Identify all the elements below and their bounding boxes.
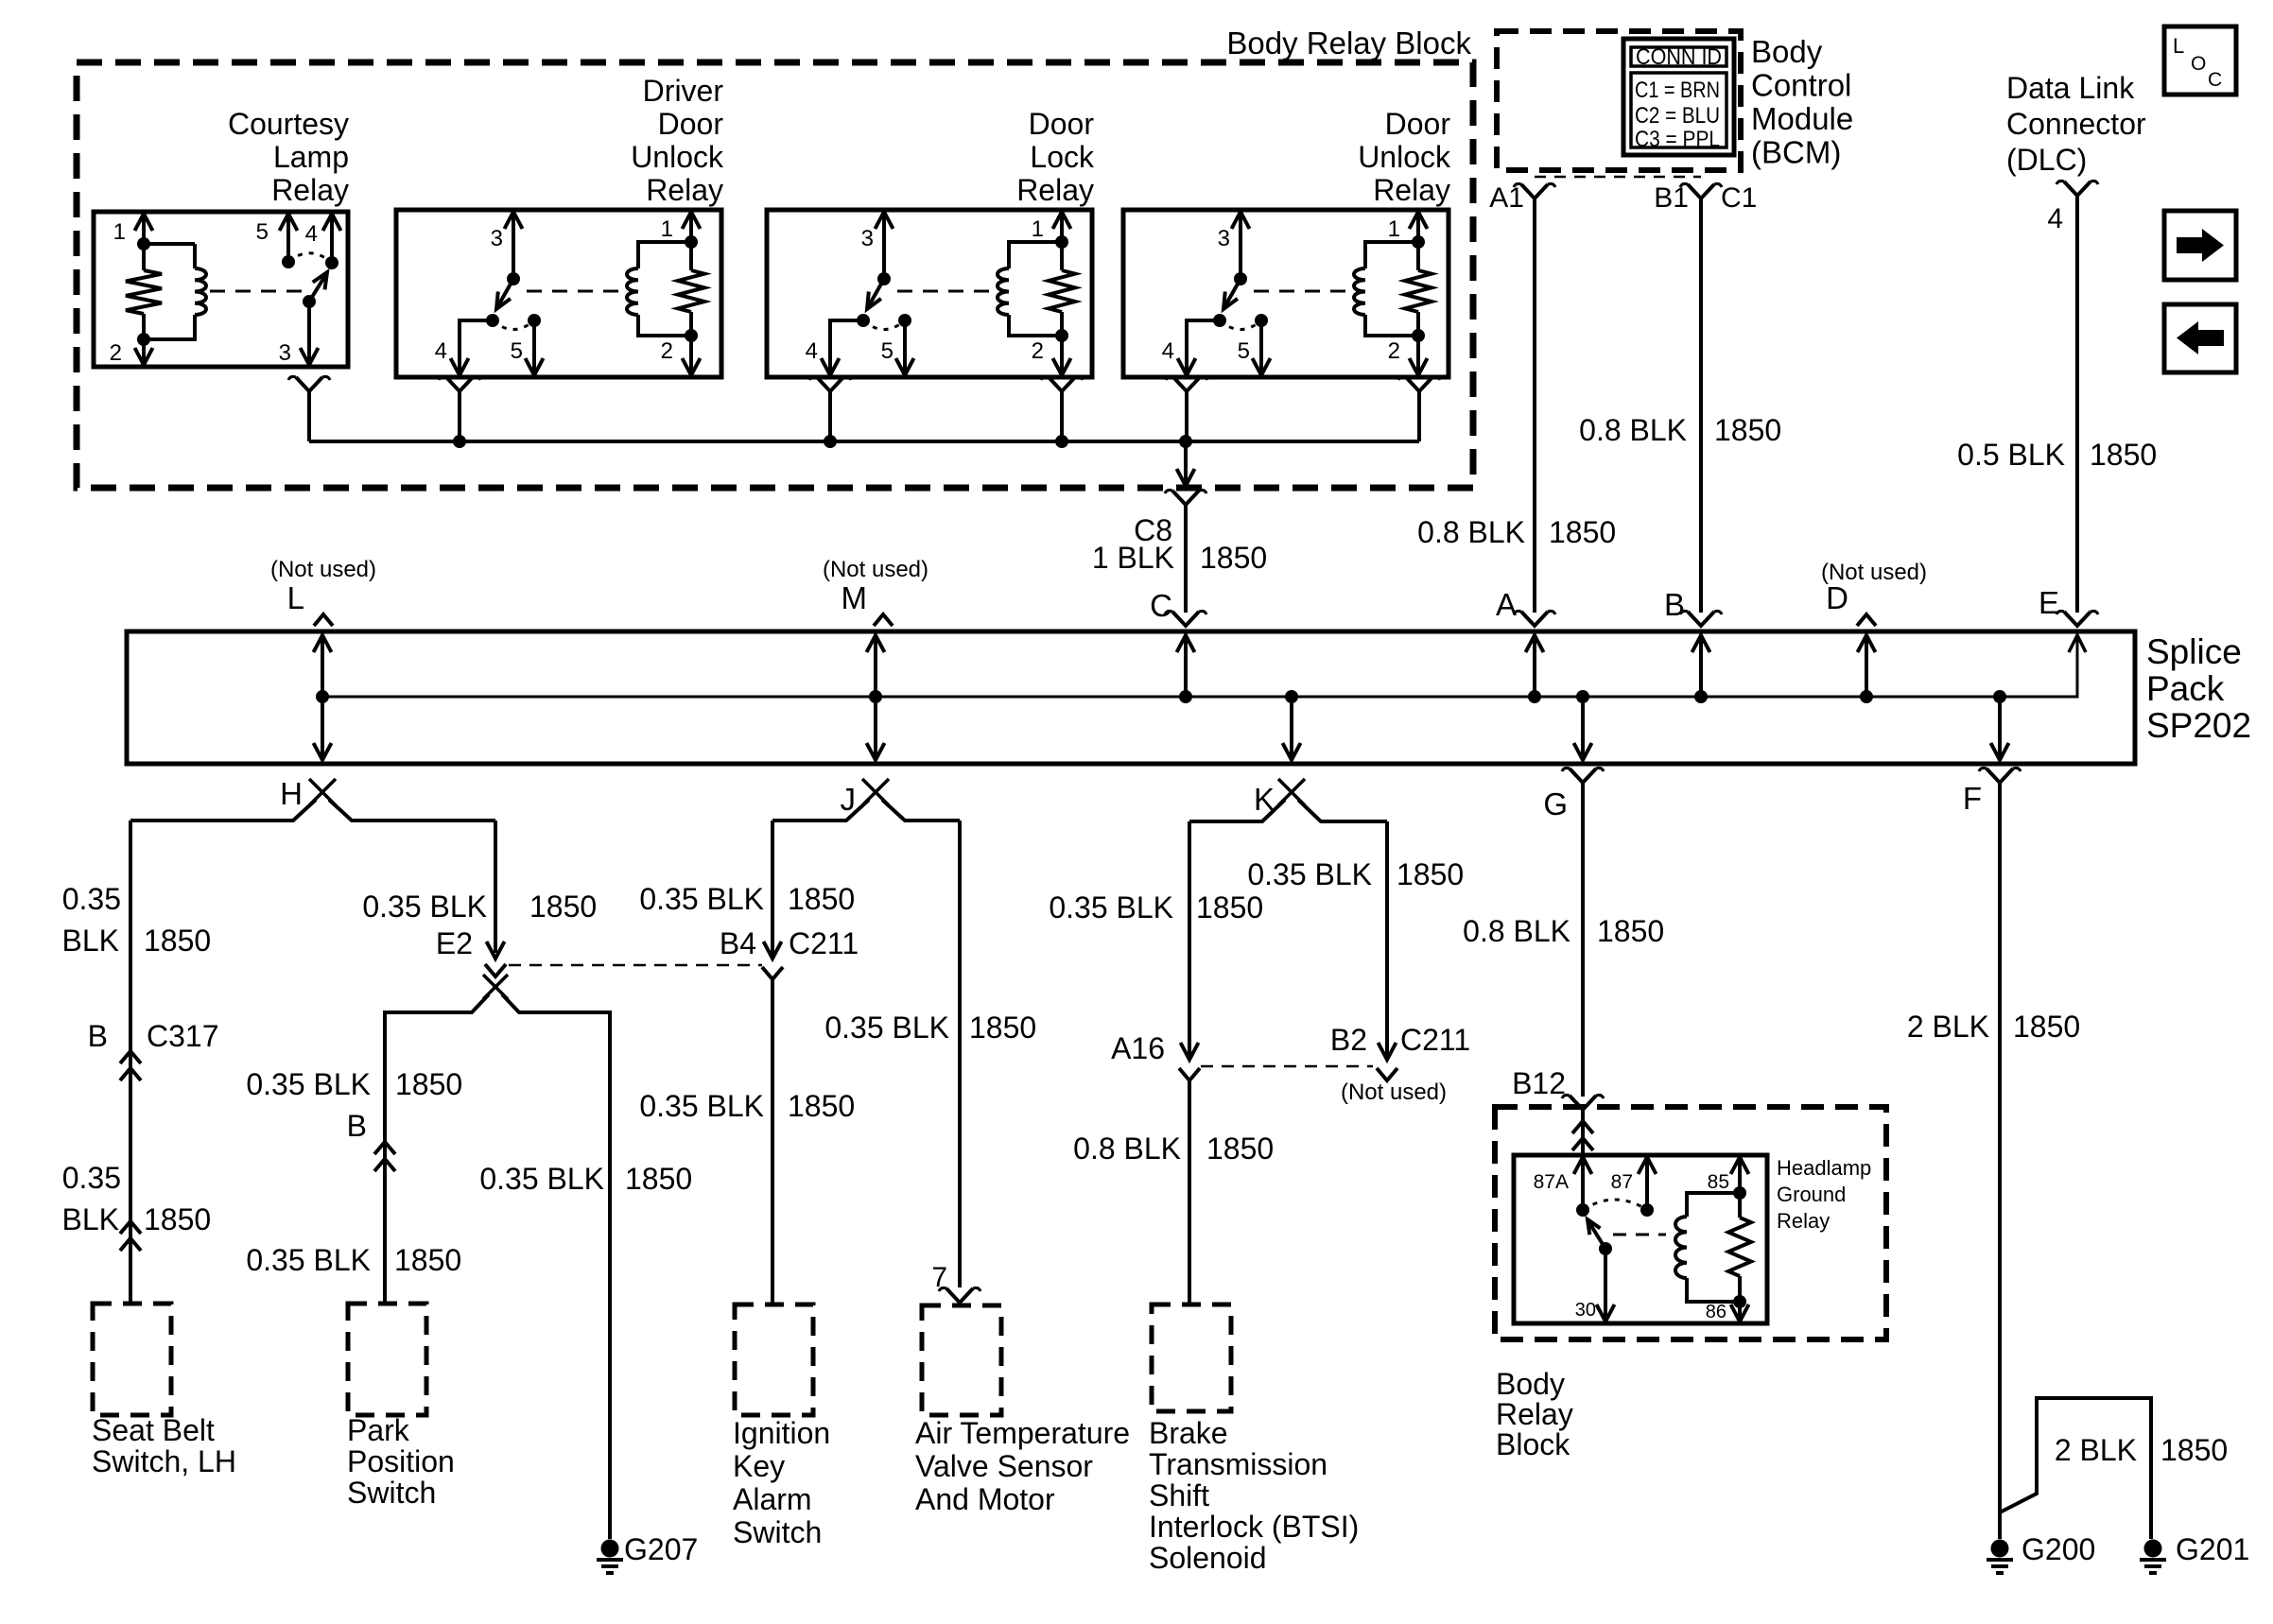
svg-text:CONN ID: CONN ID bbox=[1636, 44, 1722, 70]
connector B4 C211: down arrow and chevron bbox=[764, 942, 782, 959]
legend box left arrow bbox=[2164, 304, 2236, 372]
svg-text:BLK: BLK bbox=[62, 924, 119, 958]
relay K4 Door Unlock Relay node dot pin2 bbox=[1412, 329, 1425, 342]
ground G200 bbox=[1991, 1540, 2009, 1558]
svg-text:BLK: BLK bbox=[62, 1202, 119, 1236]
relay K1 pin 4 wire with up arrow bbox=[330, 216, 334, 263]
connector double chevron B12 inside block bbox=[1572, 1121, 1593, 1133]
connector E2: down arrow and chevron bbox=[487, 942, 505, 959]
connector Y below splice G bbox=[1570, 769, 1596, 783]
connector Y below relay K4 pin 4 bbox=[1173, 377, 1200, 391]
svg-text:1850: 1850 bbox=[1206, 1132, 1274, 1166]
junction dot splice B bbox=[1694, 690, 1708, 703]
relay K3 Door Lock Relay dashed actuation link bbox=[897, 290, 1001, 293]
svg-text:L: L bbox=[287, 580, 304, 615]
headlamp relay dashed actuation link bbox=[1613, 1234, 1666, 1236]
svg-text:E2: E2 bbox=[436, 926, 473, 960]
junction dot splice L/H bbox=[316, 690, 329, 703]
svg-text:2: 2 bbox=[1388, 338, 1400, 364]
svg-text:D: D bbox=[1826, 580, 1848, 615]
wire BTSI below A16 bbox=[1188, 1080, 1191, 1304]
connector Y below splice F bbox=[1987, 769, 2013, 783]
relay K4 Door Unlock Relay resistor bbox=[1416, 242, 1420, 270]
CONN ID header box bbox=[1631, 47, 1726, 66]
headlamp relay node dot 85 bbox=[1733, 1186, 1746, 1200]
wire K right branch down to B2 bbox=[1385, 821, 1389, 1056]
wire C8 to splice pack C bbox=[1184, 505, 1188, 613]
svg-text:1850: 1850 bbox=[144, 924, 211, 958]
CONN ID body box bbox=[1631, 73, 1726, 147]
relay K1 pin 3 wire with down arrow bbox=[307, 302, 311, 363]
svg-text:H: H bbox=[280, 776, 303, 811]
ground G207 bbox=[601, 1540, 619, 1558]
relay K2 Driver Door Unlock Relay pin 2 wire with down arrow bbox=[689, 336, 693, 373]
relay K3 Door Lock Relay pin 4 contact dot bbox=[857, 314, 870, 327]
svg-text:85: 85 bbox=[1708, 1171, 1729, 1193]
svg-text:5: 5 bbox=[1238, 338, 1250, 364]
relay K1 dotted throw arc bbox=[288, 253, 332, 263]
relay K1 node dot pin2 bbox=[137, 333, 150, 346]
connector Y above splice pack E bbox=[2064, 612, 2091, 626]
Air Temperature Valve Sensor dashed box bbox=[922, 1305, 1001, 1415]
svg-text:C: C bbox=[2208, 69, 2222, 91]
wire BCM B1 to splice pack B bbox=[1699, 199, 1703, 613]
svg-text:B: B bbox=[88, 1019, 108, 1053]
svg-text:A1: A1 bbox=[1489, 182, 1524, 214]
Ignition Key Alarm Switch dashed box bbox=[735, 1304, 813, 1415]
relay K1 pin 1 wire with up arrow bbox=[142, 216, 146, 244]
svg-text:E: E bbox=[2039, 585, 2059, 620]
svg-text:0.35: 0.35 bbox=[62, 1161, 121, 1195]
headlamp relay 87 contact dot bbox=[1640, 1203, 1654, 1217]
connector Y below relay K3 pin 4 bbox=[817, 377, 843, 391]
svg-text:1: 1 bbox=[1032, 216, 1044, 242]
svg-text:2: 2 bbox=[110, 340, 122, 366]
relay K3 Door Lock Relay coil branch wire bbox=[1009, 242, 1062, 336]
svg-text:4: 4 bbox=[435, 338, 447, 364]
svg-text:0.35 BLK: 0.35 BLK bbox=[362, 890, 487, 924]
svg-text:1850: 1850 bbox=[1714, 413, 1781, 447]
relay K2 Driver Door Unlock Relay pin 1 wire with up arrow bbox=[689, 214, 693, 242]
connector Y below relay K1 pin 3 bbox=[296, 377, 322, 391]
relay K2 Driver Door Unlock Relay switch pivot dot bbox=[507, 272, 520, 285]
wire BCM A1 to splice pack A bbox=[1533, 199, 1536, 613]
svg-text:1850: 1850 bbox=[1549, 515, 1616, 549]
svg-text:Body Relay Block: Body Relay Block bbox=[1226, 26, 1471, 60]
wire park position branch down bbox=[383, 1012, 387, 1304]
svg-text:87A: 87A bbox=[1534, 1171, 1569, 1193]
CONN ID table outer box bbox=[1623, 39, 1734, 155]
headlamp relay pin 30 wire with down arrow bbox=[1604, 1249, 1607, 1320]
svg-text:C211: C211 bbox=[1400, 1023, 1470, 1057]
svg-text:0.35 BLK: 0.35 BLK bbox=[246, 1243, 371, 1277]
wire air temp branch down bbox=[958, 821, 962, 1287]
svg-text:1: 1 bbox=[113, 219, 126, 245]
Brake Transmission Shift Interlock dashed box bbox=[1152, 1304, 1231, 1411]
svg-text:C3 = PPL: C3 = PPL bbox=[1635, 127, 1720, 152]
relay K3 Door Lock Relay box bbox=[767, 210, 1092, 377]
svg-text:G: G bbox=[1543, 786, 1568, 821]
wire relay K4 pin4 to bus bbox=[1185, 391, 1189, 441]
relay K1 coil bbox=[195, 268, 206, 315]
relay K2 Driver Door Unlock Relay coil bbox=[627, 268, 638, 315]
relay K4 Door Unlock Relay coil branch wire bbox=[1365, 242, 1418, 336]
headlamp relay pin 87A wire with up arrow bbox=[1581, 1159, 1585, 1210]
connector C317 double chevron bbox=[120, 1051, 141, 1063]
svg-text:1 BLK: 1 BLK bbox=[1092, 541, 1174, 575]
svg-text:1850: 1850 bbox=[2160, 1433, 2228, 1467]
splice terminal A arrow bbox=[1533, 637, 1536, 697]
svg-text:C1 = BRN: C1 = BRN bbox=[1635, 78, 1720, 103]
wire K split to branches bbox=[1189, 800, 1387, 821]
connector Y above splice pack A bbox=[1521, 612, 1548, 626]
wire relay K2 pin4 to bus bbox=[458, 391, 461, 441]
svg-text:(Not used): (Not used) bbox=[1341, 1080, 1447, 1105]
svg-text:C2 = BLU: C2 = BLU bbox=[1635, 103, 1720, 129]
wire G207 branch down bbox=[608, 1014, 612, 1539]
relay K3 Door Lock Relay pin 2 wire with down arrow bbox=[1060, 336, 1064, 373]
headlamp relay node dot 86 bbox=[1733, 1295, 1746, 1308]
wire horizontal ground bus in relay block bbox=[309, 440, 1419, 443]
svg-text:0.35: 0.35 bbox=[62, 882, 121, 916]
relay K1 Courtesy Lamp Relay box bbox=[94, 212, 348, 367]
wire relay K3 pin2 to bus bbox=[1060, 391, 1064, 441]
svg-text:4: 4 bbox=[1162, 338, 1174, 364]
svg-text:3: 3 bbox=[1218, 226, 1230, 251]
connector Y below BCM pin A1 bbox=[1521, 184, 1548, 199]
svg-text:1850: 1850 bbox=[394, 1243, 461, 1277]
relay K1 pin 5 wire with up arrow bbox=[286, 216, 290, 262]
splice terminal K arrow bbox=[1290, 697, 1293, 758]
svg-text:0.35 BLK: 0.35 BLK bbox=[1049, 890, 1173, 924]
svg-text:5: 5 bbox=[256, 219, 269, 245]
svg-text:B12: B12 bbox=[1512, 1066, 1566, 1100]
svg-text:1850: 1850 bbox=[625, 1162, 692, 1196]
svg-text:O: O bbox=[2191, 53, 2206, 75]
svg-text:2 BLK: 2 BLK bbox=[2055, 1433, 2137, 1467]
relay K3 Door Lock Relay node dot pin1 bbox=[1055, 235, 1068, 249]
relay K3 Door Lock Relay pin 4 elbow wire with down arrow bbox=[830, 320, 863, 373]
svg-text:0.8 BLK: 0.8 BLK bbox=[1463, 914, 1570, 948]
svg-text:0.35 BLK: 0.35 BLK bbox=[824, 1011, 949, 1045]
wire J split to branches bbox=[772, 800, 960, 821]
relay K3 Door Lock Relay pin 3 wire with up arrow bbox=[882, 214, 886, 279]
relay K4 Door Unlock Relay pin 5 contact dot bbox=[1255, 314, 1268, 327]
Body Relay Block (lower) dashed enclosure bbox=[1495, 1107, 1886, 1339]
svg-text:4: 4 bbox=[806, 338, 818, 364]
relay K4 Door Unlock Relay dotted throw arc bbox=[1220, 320, 1261, 330]
junction dot splice D bbox=[1860, 690, 1873, 703]
junction dot bus/K2p4 bbox=[453, 435, 466, 448]
relay K4 Door Unlock Relay pin 1 wire with up arrow bbox=[1416, 214, 1420, 242]
svg-text:0.35 BLK: 0.35 BLK bbox=[1247, 857, 1372, 891]
wire H right branch down to E2 bbox=[494, 821, 497, 953]
relay K4 Door Unlock Relay coil bbox=[1354, 268, 1365, 315]
relay K1 dashed actuation link bbox=[210, 290, 304, 293]
svg-text:C: C bbox=[1150, 588, 1172, 623]
svg-text:0.35 BLK: 0.35 BLK bbox=[639, 882, 764, 916]
svg-text:B4: B4 bbox=[720, 926, 756, 960]
svg-text:B2: B2 bbox=[1330, 1023, 1367, 1057]
svg-text:0.8 BLK: 0.8 BLK bbox=[1417, 515, 1525, 549]
relay K2 Driver Door Unlock Relay node dot pin2 bbox=[685, 329, 698, 342]
svg-text:0.5 BLK: 0.5 BLK bbox=[1957, 438, 2065, 472]
svg-text:A16: A16 bbox=[1111, 1031, 1165, 1065]
relay K3 Door Lock Relay node dot pin2 bbox=[1055, 329, 1068, 342]
headlamp relay pin 85 wire with up arrow bbox=[1738, 1159, 1742, 1193]
relay K4 Door Unlock Relay switch arm (to pin 4 contact) bbox=[1224, 279, 1241, 307]
relay K3 Door Lock Relay pin 5 wire with down arrow bbox=[903, 320, 907, 373]
svg-text:1850: 1850 bbox=[1200, 541, 1267, 575]
relay K2 Driver Door Unlock Relay node dot pin1 bbox=[685, 235, 698, 249]
relay K2 Driver Door Unlock Relay dotted throw arc bbox=[493, 320, 534, 330]
svg-text:86: 86 bbox=[1706, 1302, 1726, 1322]
svg-text:2: 2 bbox=[1032, 338, 1044, 364]
dashed line A16 to B2 bbox=[1201, 1065, 1373, 1068]
svg-text:G200: G200 bbox=[2021, 1532, 2095, 1566]
relay K2 Driver Door Unlock Relay switch arm (to pin 4 contact) bbox=[497, 279, 513, 307]
wire relay K3 pin4 to bus bbox=[828, 391, 832, 441]
relay K2 Driver Door Unlock Relay box bbox=[396, 210, 721, 377]
headlamp relay resistor bbox=[1738, 1193, 1742, 1218]
splice terminal L/H vertical with arrows bbox=[321, 637, 324, 758]
relay K1 node dot pin1 bbox=[137, 237, 150, 251]
Splice Pack SP202 box bbox=[127, 631, 2135, 764]
svg-text:3: 3 bbox=[279, 340, 291, 366]
relay K2 Driver Door Unlock Relay coil branch wire bbox=[638, 242, 691, 336]
relay K4 Door Unlock Relay node dot pin1 bbox=[1412, 235, 1425, 249]
headlamp relay coil bbox=[1675, 1217, 1687, 1278]
svg-text:B1: B1 bbox=[1654, 182, 1689, 214]
svg-text:1850: 1850 bbox=[144, 1202, 211, 1236]
Seat Belt Switch dashed box bbox=[93, 1304, 171, 1415]
wire ignition below B4 bbox=[771, 979, 774, 1304]
connector X below splice K bbox=[1278, 779, 1305, 805]
svg-text:2: 2 bbox=[661, 338, 673, 364]
relay K4 Door Unlock Relay pin 3 wire with up arrow bbox=[1239, 214, 1242, 279]
splice terminal C arrow bbox=[1184, 637, 1188, 697]
splice terminal M/J vertical with arrows bbox=[874, 637, 877, 758]
ground G201 bbox=[2144, 1540, 2162, 1558]
relay K4 Door Unlock Relay switch pivot dot bbox=[1234, 272, 1247, 285]
headlamp relay 87A contact dot bbox=[1576, 1203, 1589, 1217]
svg-text:BodyRelayBlock: BodyRelayBlock bbox=[1496, 1367, 1573, 1461]
junction dot splice G bbox=[1576, 690, 1589, 703]
relay K2 Driver Door Unlock Relay pin 4 contact dot bbox=[486, 314, 499, 327]
headlamp relay switch arm to 87A bbox=[1588, 1221, 1605, 1249]
svg-text:4: 4 bbox=[2047, 203, 2063, 234]
splice pack internal bus wire bbox=[322, 637, 2077, 697]
svg-text:M: M bbox=[842, 580, 868, 615]
svg-text:F: F bbox=[1963, 781, 1982, 816]
wire E2 split to branches bbox=[385, 994, 610, 1014]
connector Y above splice pack B bbox=[1688, 612, 1714, 626]
connector Y below BCM pin B1 bbox=[1688, 184, 1714, 199]
Park Position Switch dashed box bbox=[348, 1304, 426, 1415]
relay K3 Door Lock Relay switch arm (to pin 4 contact) bbox=[868, 279, 884, 307]
relay K2 Driver Door Unlock Relay resistor bbox=[689, 242, 693, 270]
relay K3 Door Lock Relay coil bbox=[998, 268, 1009, 315]
relay K2 Driver Door Unlock Relay dashed actuation link bbox=[527, 290, 631, 293]
svg-text:L: L bbox=[2173, 34, 2184, 58]
svg-text:B: B bbox=[1664, 587, 1685, 622]
relay K3 Door Lock Relay pin 5 contact dot bbox=[898, 314, 911, 327]
svg-text:C211: C211 bbox=[789, 926, 859, 960]
connector Y below DLC pin 4 bbox=[2064, 181, 2091, 196]
relay K3 Door Lock Relay resistor bbox=[1060, 242, 1064, 270]
svg-text:1850: 1850 bbox=[969, 1011, 1036, 1045]
relay K4 Door Unlock Relay pin 2 wire with down arrow bbox=[1416, 336, 1420, 373]
junction dot splice F bbox=[1993, 690, 2006, 703]
splice terminal D arrow bbox=[1865, 637, 1868, 697]
junction dot splice C bbox=[1179, 690, 1192, 703]
svg-text:1850: 1850 bbox=[1597, 914, 1664, 948]
headlamp relay pin 87 wire with up arrow bbox=[1645, 1159, 1649, 1210]
relay K1 switch arm (to pin 4) bbox=[309, 274, 326, 302]
svg-text:1850: 1850 bbox=[529, 890, 597, 924]
wire relay K1 pin3 to bus bbox=[307, 391, 311, 441]
relay K1 pin 5 contact dot bbox=[282, 255, 295, 268]
svg-text:C1: C1 bbox=[1721, 182, 1757, 214]
svg-text:1850: 1850 bbox=[395, 1067, 462, 1101]
connector X below splice H bbox=[309, 779, 336, 805]
Body Control Module enclosure (dashed) bbox=[1497, 31, 1741, 170]
svg-text:1850: 1850 bbox=[788, 1089, 855, 1123]
headlamp relay dotted throw arc bbox=[1583, 1200, 1647, 1210]
junction dot bus/K3p4 bbox=[824, 435, 837, 448]
wire H split to left/right branches bbox=[130, 800, 495, 821]
relay K4 Door Unlock Relay pin 4 elbow wire with down arrow bbox=[1187, 320, 1220, 373]
svg-text:A: A bbox=[1496, 587, 1517, 622]
wire DLC pin4 to splice pack E bbox=[2075, 196, 2079, 613]
svg-text:(Not used): (Not used) bbox=[823, 557, 928, 582]
headlamp relay pin 86 wire with down arrow bbox=[1738, 1302, 1742, 1320]
Body Relay Block enclosure (dashed) bbox=[77, 62, 1473, 488]
svg-text:1: 1 bbox=[661, 216, 673, 242]
relay K1 switch common dot bbox=[303, 295, 316, 308]
relay K2 Driver Door Unlock Relay pin 5 contact dot bbox=[528, 314, 541, 327]
wire BTSI branch down to A16 bbox=[1188, 821, 1191, 1056]
svg-text:4: 4 bbox=[305, 221, 318, 247]
connector Y C8 below relay block bbox=[1172, 491, 1199, 505]
connector X below E2 bbox=[483, 975, 508, 999]
svg-text:0.8 BLK: 0.8 BLK bbox=[1073, 1132, 1181, 1166]
svg-text:0.35 BLK: 0.35 BLK bbox=[246, 1067, 371, 1101]
svg-text:5: 5 bbox=[881, 338, 894, 364]
splice terminal F arrow bbox=[1998, 697, 2002, 758]
relay K4 Door Unlock Relay box bbox=[1123, 210, 1449, 377]
connector X below splice J bbox=[862, 779, 889, 805]
connector Y above air temp box bbox=[946, 1288, 973, 1303]
wire branch to G201 bbox=[2000, 1398, 2151, 1539]
connector A16: down arrow and chevron bbox=[1181, 1043, 1199, 1060]
relay K3 Door Lock Relay switch pivot dot bbox=[877, 272, 891, 285]
relay K3 Door Lock Relay pin 1 wire with up arrow bbox=[1060, 214, 1064, 242]
relay K1 resistor (coil suppression) bbox=[142, 244, 146, 270]
svg-text:30: 30 bbox=[1575, 1300, 1596, 1321]
wire B12 Y to relay bbox=[1581, 1110, 1585, 1155]
Headlamp Ground Relay box bbox=[1514, 1155, 1767, 1323]
wire H left branch down (seat belt) bbox=[129, 821, 132, 1304]
legend box right arrow bbox=[2164, 211, 2236, 280]
wire splice G down to B12 bbox=[1581, 783, 1585, 1097]
svg-text:3: 3 bbox=[491, 226, 503, 251]
junction dot bus/K3p2 bbox=[1055, 435, 1068, 448]
headlamp relay coil branch wire bbox=[1687, 1193, 1740, 1302]
wire bus down to C8 with arrow bbox=[1184, 441, 1188, 484]
svg-text:0.35 BLK: 0.35 BLK bbox=[479, 1162, 604, 1196]
relay K1 coil branch wire bbox=[144, 244, 195, 339]
junction dot bus/K4p4 bbox=[1179, 435, 1192, 448]
relay K1 pin 4 contact dot bbox=[325, 256, 338, 269]
splice terminal G arrow bbox=[1581, 697, 1585, 758]
svg-text:2 BLK: 2 BLK bbox=[1907, 1010, 1989, 1044]
connector Y below relay K2 pin 4 bbox=[446, 377, 473, 391]
relay K1 pin 2 wire with down arrow bbox=[142, 339, 146, 363]
svg-text:1850: 1850 bbox=[2090, 438, 2157, 472]
relay K4 Door Unlock Relay pin 5 wire with down arrow bbox=[1259, 320, 1263, 373]
BCM connector face dashed line bbox=[1535, 176, 1701, 179]
junction dot splice M/J bbox=[869, 690, 882, 703]
connector double chevron (park) bbox=[374, 1142, 395, 1154]
connector Y above body relay block B12 bbox=[1570, 1096, 1596, 1110]
svg-text:0.35 BLK: 0.35 BLK bbox=[639, 1089, 764, 1123]
svg-text:1: 1 bbox=[1388, 216, 1400, 242]
wire splice F down to G200 bbox=[1998, 783, 2002, 1539]
relay K4 Door Unlock Relay dashed actuation link bbox=[1254, 290, 1358, 293]
splice terminal B arrow bbox=[1699, 637, 1703, 697]
svg-text:5: 5 bbox=[511, 338, 523, 364]
svg-text:1850: 1850 bbox=[788, 882, 855, 916]
connector Y below relay K4 pin 2 bbox=[1406, 377, 1432, 391]
svg-text:B: B bbox=[347, 1109, 367, 1143]
relay K2 Driver Door Unlock Relay pin 3 wire with up arrow bbox=[512, 214, 515, 279]
relay K2 Driver Door Unlock Relay pin 4 elbow wire with down arrow bbox=[460, 320, 493, 373]
connector B2 C211: down arrow and chevron bbox=[1379, 1043, 1397, 1060]
svg-text:1850: 1850 bbox=[1196, 890, 1263, 924]
junction dot splice A bbox=[1528, 690, 1541, 703]
svg-text:G201: G201 bbox=[2176, 1532, 2249, 1566]
svg-text:0.8 BLK: 0.8 BLK bbox=[1579, 413, 1687, 447]
wire ignition branch down to B4 bbox=[771, 821, 774, 955]
relay K3 Door Lock Relay dotted throw arc bbox=[863, 320, 905, 330]
svg-text:87: 87 bbox=[1611, 1171, 1633, 1193]
dashed line E2 to B4 C211 bbox=[509, 964, 762, 967]
relay K4 Door Unlock Relay pin 4 contact dot bbox=[1213, 314, 1226, 327]
svg-text:3: 3 bbox=[861, 226, 874, 251]
svg-text:G207: G207 bbox=[624, 1532, 698, 1566]
LOC legend box bbox=[2164, 26, 2236, 95]
svg-text:1850: 1850 bbox=[2013, 1010, 2080, 1044]
svg-text:C317: C317 bbox=[147, 1019, 219, 1053]
junction dot splice K bbox=[1285, 690, 1298, 703]
svg-text:1850: 1850 bbox=[1397, 857, 1464, 891]
wire relay K4 pin2 to bus bbox=[1417, 391, 1421, 441]
connector Y below relay K3 pin 2 bbox=[1049, 377, 1075, 391]
headlamp relay switch common dot bbox=[1599, 1242, 1612, 1255]
relay K2 Driver Door Unlock Relay pin 5 wire with down arrow bbox=[532, 320, 536, 373]
connector Y above splice pack C bbox=[1172, 612, 1199, 626]
svg-text:(Not used): (Not used) bbox=[270, 557, 376, 582]
connector double chevron (seat belt) bbox=[120, 1221, 141, 1234]
